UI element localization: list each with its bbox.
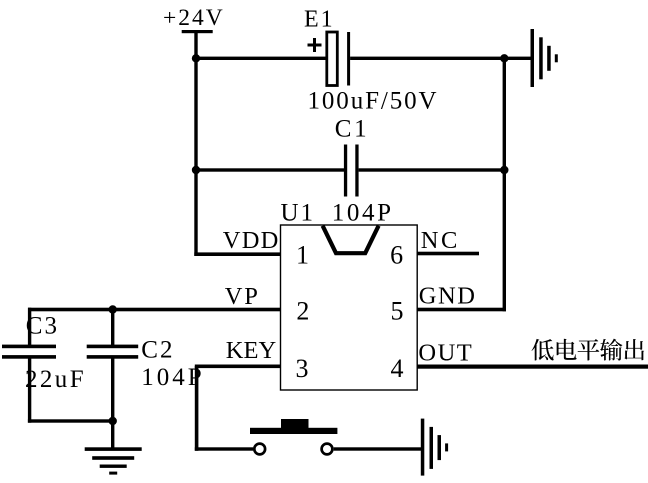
ground G1 (top right) <box>531 29 558 87</box>
button S1 actuator nub <box>281 419 309 428</box>
capacitor E1 positive plate <box>327 32 338 86</box>
node B junction dot <box>500 54 508 62</box>
output label 低电平输出 <box>532 339 645 361</box>
wire node C to C1 <box>196 168 346 171</box>
capacitor C1 left plate <box>344 145 347 197</box>
svg-text:6: 6 <box>390 241 403 270</box>
button S1 actuator bar <box>250 428 337 434</box>
svg-text:4: 4 <box>391 354 404 383</box>
wire VP corner down to C3 <box>28 308 31 347</box>
wire C1 to node D <box>359 168 506 171</box>
svg-text:C2: C2 <box>141 337 174 364</box>
IC U1 notch <box>323 226 379 254</box>
capacitor C1 right plate <box>355 145 358 197</box>
wire node A to E1 <box>196 57 328 60</box>
wire KEY pin 3 <box>195 365 281 369</box>
IC U1 body <box>281 225 418 390</box>
svg-text:2: 2 <box>296 296 309 325</box>
svg-text:VP: VP <box>225 283 260 310</box>
power rail bar <box>182 30 213 33</box>
svg-text:100uF/50V: 100uF/50V <box>308 88 439 115</box>
wire E1 to node B <box>350 57 506 60</box>
svg-text:5: 5 <box>391 296 404 325</box>
svg-text:22uF: 22uF <box>25 366 86 393</box>
svg-text:OUT: OUT <box>418 339 473 366</box>
wire GND pin 5 to right bus <box>417 308 506 312</box>
node C junction dot <box>192 166 200 174</box>
svg-text:U1: U1 <box>281 200 316 227</box>
capacitor C3 bottom plate <box>2 355 56 359</box>
svg-text:104P: 104P <box>332 200 394 227</box>
wire NC stub pin 6 <box>417 252 479 256</box>
wire C3 down to bottom corner <box>28 356 31 423</box>
svg-text:E1: E1 <box>304 7 335 33</box>
svg-text:1: 1 <box>296 241 309 270</box>
wire node B to ground G1 <box>504 57 532 60</box>
wire right bus node B down to GND stub <box>503 58 506 311</box>
wire power rail to node A <box>194 31 197 59</box>
node E junction dot <box>109 417 117 425</box>
svg-text:+24V: +24V <box>163 5 225 31</box>
capacitor C2 bottom plate <box>87 355 139 359</box>
capacitor C3 top plate <box>2 345 56 349</box>
wire bottom corner to node E <box>28 419 115 422</box>
capacitor C2 top plate <box>87 345 139 349</box>
wire node F down to C2 <box>111 310 114 347</box>
svg-text:VDD: VDD <box>223 227 280 254</box>
wire C2 down to ground G2 <box>111 356 114 449</box>
node A junction dot <box>192 54 200 62</box>
svg-text:KEY: KEY <box>226 337 277 364</box>
capacitor E1 negative plate <box>347 32 350 86</box>
wire VDD pin 1 <box>194 252 280 256</box>
button S1 left terminal <box>254 444 265 455</box>
svg-text:3: 3 <box>296 354 309 383</box>
ground G3 (bottom right) <box>421 419 448 476</box>
capacitor E1 plus sign <box>308 38 322 52</box>
button S1 right terminal <box>322 444 333 455</box>
wire KEY corner down to button <box>195 366 199 451</box>
wire OUT pin 4 to right edge <box>417 365 648 369</box>
svg-text:GND: GND <box>419 283 477 310</box>
wire left bus node A down to VDD <box>194 58 197 256</box>
wire button to ground G3 <box>334 447 422 450</box>
svg-text:C1: C1 <box>335 115 369 142</box>
node D junction dot <box>500 166 508 174</box>
svg-text:NC: NC <box>421 227 460 254</box>
node F junction dot <box>109 305 117 313</box>
wire VP pin 2 <box>28 308 281 312</box>
ground G2 (bottom left) <box>85 447 142 474</box>
wire corner to button left terminal <box>195 447 253 450</box>
